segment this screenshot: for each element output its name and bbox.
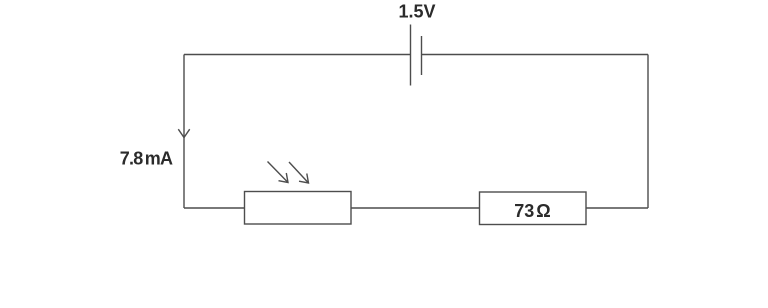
svg-text:1.5V: 1.5V [398, 2, 435, 22]
wire top-left segment [184, 54, 411, 56]
battery B1 short plate [421, 36, 423, 75]
light arrow 1 shaft [268, 162, 289, 183]
wire right vertical [647, 55, 649, 209]
battery B1 long plate [410, 25, 412, 86]
LDR box [245, 192, 352, 225]
svg-text:73Ω: 73Ω [514, 201, 550, 221]
resistor R1 box [480, 192, 587, 225]
current direction arrow on left wire [178, 129, 189, 137]
wire top-right segment [422, 54, 649, 56]
wire bottom-left segment [184, 207, 245, 209]
svg-text:7.8mA: 7.8mA [120, 149, 173, 169]
wire left vertical [183, 55, 185, 209]
light arrow 1 head [279, 173, 289, 183]
light arrow 2 head [299, 174, 309, 184]
wire bottom-right segment [586, 207, 648, 209]
wire bottom-middle segment [351, 207, 480, 209]
light arrow 2 shaft [289, 162, 309, 183]
